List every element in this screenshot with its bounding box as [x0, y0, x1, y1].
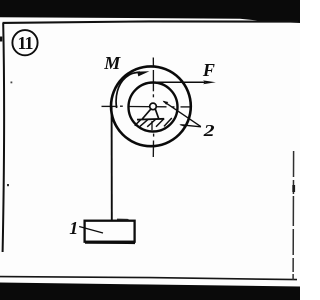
svg-text:11: 11	[17, 33, 33, 53]
svg-text:2: 2	[203, 121, 216, 140]
svg-text:M: M	[103, 53, 121, 73]
svg-text:F: F	[202, 60, 215, 80]
svg-text:1: 1	[69, 218, 78, 238]
